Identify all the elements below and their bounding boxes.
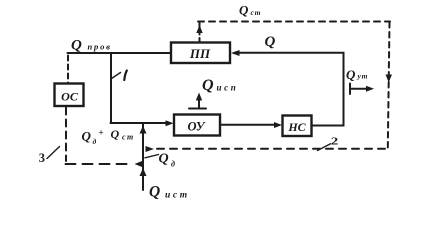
label Qист [149,184,190,201]
callout 3 tick [47,147,60,159]
label Qд+Qст sum [82,127,135,146]
svg-text:Q: Q [265,34,276,50]
junction arrow up at feed line top [140,126,147,134]
label Qд [159,152,176,169]
wire Qпров horizontal into ПП [68,52,172,54]
svg-text:2: 2 [331,136,339,147]
wire ОУ to НС with arrow [220,122,282,128]
wire vertical feed line below ОУ input [142,124,144,191]
dashed wire right side down with arrow [386,22,393,148]
svg-text:Q: Q [71,38,82,54]
label Qпров [71,38,112,54]
svg-text:Q: Q [239,3,249,18]
arrow Qисп up from ОУ [189,93,206,109]
arrow Qут leak to right [350,84,374,95]
dashed boundary bottom with start arrow [146,146,389,152]
svg-text:д: д [93,137,97,146]
arrow left at end of ОС dashed wire [135,161,143,167]
svg-text:ист: ист [165,191,190,201]
callout 1 tick [112,73,121,79]
svg-text:ут: ут [357,72,369,81]
svg-text:исп: исп [217,83,239,93]
svg-text:Q: Q [111,127,120,141]
label Qисп [202,77,238,94]
block ОУ [174,115,220,136]
svg-text:+: + [99,128,104,138]
callout 1 numeral [124,71,127,81]
dashed wire Qпров down to ОС [67,56,69,84]
label Qст [239,3,261,18]
svg-text:ОС: ОС [61,90,79,104]
svg-text:Q: Q [159,152,169,167]
svg-text:д: д [171,160,175,169]
svg-text:ПП: ПП [189,46,211,61]
dashed wire Qст up from ПП [196,23,202,43]
svg-text:ОУ: ОУ [188,120,206,134]
svg-text:Q: Q [346,67,356,82]
svg-text:Q: Q [82,129,92,144]
label Qут [346,67,368,82]
svg-text:ст: ст [122,133,135,142]
callout 2 tick [318,144,331,151]
wire НС output feedback to ПП with arrow [231,50,344,126]
svg-text:НС: НС [287,120,306,134]
wire vertical from Qпров junction down [110,53,112,123]
junction arrow up at feed line lower [140,168,147,176]
block ПП [171,43,230,64]
wire into ОУ with arrow [111,120,174,126]
leader line to Qд label [145,155,159,158]
block ОС [55,84,84,107]
block НС [283,116,312,137]
dashed wire ОС down and right to feed line [66,108,143,168]
svg-text:3: 3 [39,151,45,165]
svg-text:Q: Q [149,184,160,201]
svg-text:ст: ст [251,8,262,17]
svg-text:Q: Q [202,77,214,94]
svg-text:пров: пров [88,42,112,52]
dashed wire Qст top horizontal [198,21,390,23]
